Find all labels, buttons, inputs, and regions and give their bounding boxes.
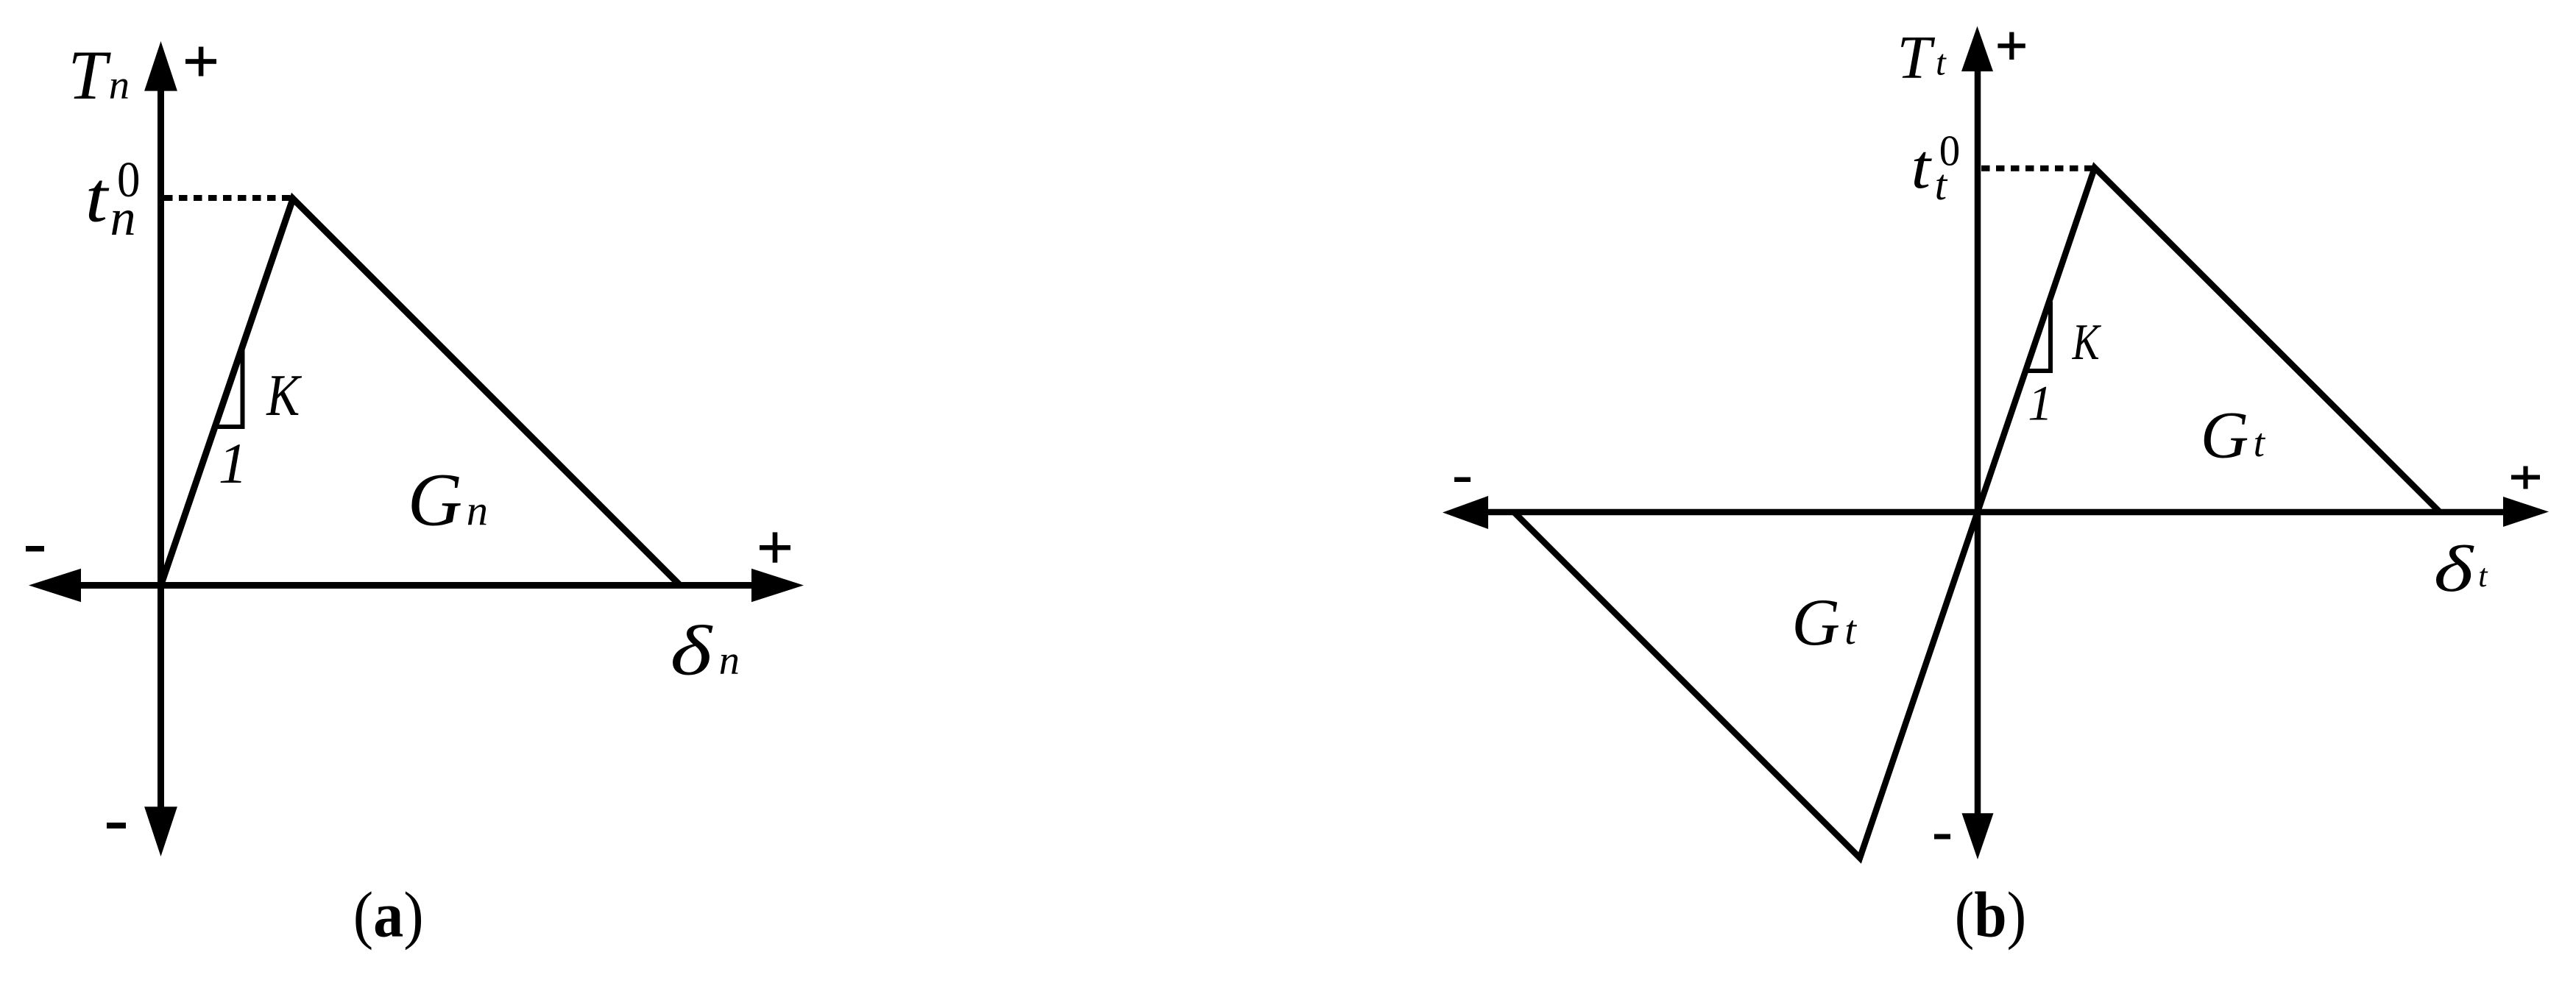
svg-text:T: T bbox=[68, 36, 111, 114]
svg-text:t: t bbox=[85, 157, 110, 236]
svg-text:t: t bbox=[2254, 420, 2266, 465]
svg-text:G: G bbox=[408, 458, 462, 542]
svg-text:(a): (a) bbox=[353, 879, 424, 951]
svg-text:1: 1 bbox=[2028, 376, 2053, 431]
svg-text:T: T bbox=[1897, 24, 1936, 92]
svg-text:δ: δ bbox=[2434, 533, 2475, 606]
svg-text:K: K bbox=[266, 363, 302, 428]
svg-text:G: G bbox=[1791, 585, 1840, 659]
svg-text:t: t bbox=[1935, 160, 1948, 209]
svg-text:t: t bbox=[2478, 557, 2488, 594]
svg-text:n: n bbox=[467, 486, 488, 534]
svg-text:n: n bbox=[109, 63, 130, 108]
svg-text:n: n bbox=[719, 638, 740, 684]
svg-text:1: 1 bbox=[219, 432, 247, 496]
svg-text:G: G bbox=[2201, 398, 2249, 472]
svg-text:(b): (b) bbox=[1955, 879, 2027, 951]
svg-text:K: K bbox=[2072, 313, 2101, 371]
svg-text:δ: δ bbox=[670, 611, 714, 690]
svg-text:t: t bbox=[1844, 608, 1857, 653]
svg-text:t: t bbox=[1911, 132, 1933, 202]
svg-text:n: n bbox=[110, 189, 136, 246]
svg-text:t: t bbox=[1936, 42, 1947, 82]
